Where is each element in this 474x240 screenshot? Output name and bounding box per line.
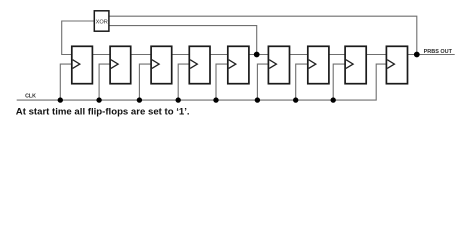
wire: FF2 Q to FF3 D xyxy=(131,54,151,56)
clock riser FF8 xyxy=(333,64,345,100)
wire: XOR bottom input from FF5 output tap xyxy=(109,26,257,55)
clock riser FF2 xyxy=(99,64,110,100)
wire: FF9 Q to PRBS OUT xyxy=(408,54,455,56)
clock riser FF3 xyxy=(139,64,151,100)
wire: FF1 Q to FF2 D xyxy=(92,54,110,56)
svg-text:XOR: XOR xyxy=(96,19,108,25)
node: FF5 output tap junction xyxy=(254,52,260,58)
node: clock junction dot FF4 xyxy=(176,97,181,102)
wire: FF8 Q to FF9 D xyxy=(366,54,386,56)
wire: FF6 Q to FF7 D xyxy=(290,54,308,56)
node: clock junction dot FF8 xyxy=(331,97,336,102)
XOR gate U1 xyxy=(94,11,109,31)
clock riser FF6 xyxy=(257,64,268,100)
flip-flop FF2 xyxy=(110,46,131,83)
svg-text:At start time all flip-flops a: At start time all flip-flops are set to … xyxy=(16,106,190,117)
flip-flop FF9 xyxy=(386,46,407,83)
clock riser FF5 xyxy=(216,64,228,100)
wire: XOR top input from FF9/PRBS node xyxy=(109,16,417,54)
svg-text:CLK: CLK xyxy=(25,93,36,99)
node: PRBS OUT junction xyxy=(414,52,420,58)
node: clock junction dot FF1 xyxy=(58,97,63,102)
clock riser FF1 xyxy=(60,64,72,100)
node: clock junction dot FF6 xyxy=(255,97,260,102)
wire: FF7 Q to FF8 D xyxy=(329,54,345,56)
wire: XOR output left then down to FF1 D input xyxy=(62,21,95,55)
flip-flop FF7 xyxy=(308,46,329,83)
flip-flop FF8 xyxy=(345,46,366,83)
node: clock junction dot FF5 xyxy=(213,97,218,102)
flip-flop FF3 xyxy=(151,46,172,83)
flip-flop FF4 xyxy=(189,46,210,83)
CLK bus xyxy=(17,64,387,100)
flip-flop FF1 xyxy=(72,46,93,83)
clock riser FF7 xyxy=(296,64,308,100)
clock riser FF4 xyxy=(178,64,189,100)
wire: FF3 Q to FF4 D xyxy=(172,54,190,56)
node: clock junction dot FF7 xyxy=(293,97,298,102)
flip-flop FF5 xyxy=(228,46,249,83)
flip-flop FF6 xyxy=(268,46,289,83)
svg-text:PRBS OUT: PRBS OUT xyxy=(424,49,453,55)
wire: FF5 Q to FF6 D xyxy=(249,54,269,56)
node: clock junction dot FF2 xyxy=(96,97,101,102)
node: clock junction dot FF3 xyxy=(137,97,142,102)
wire: FF4 Q to FF5 D xyxy=(210,54,228,56)
